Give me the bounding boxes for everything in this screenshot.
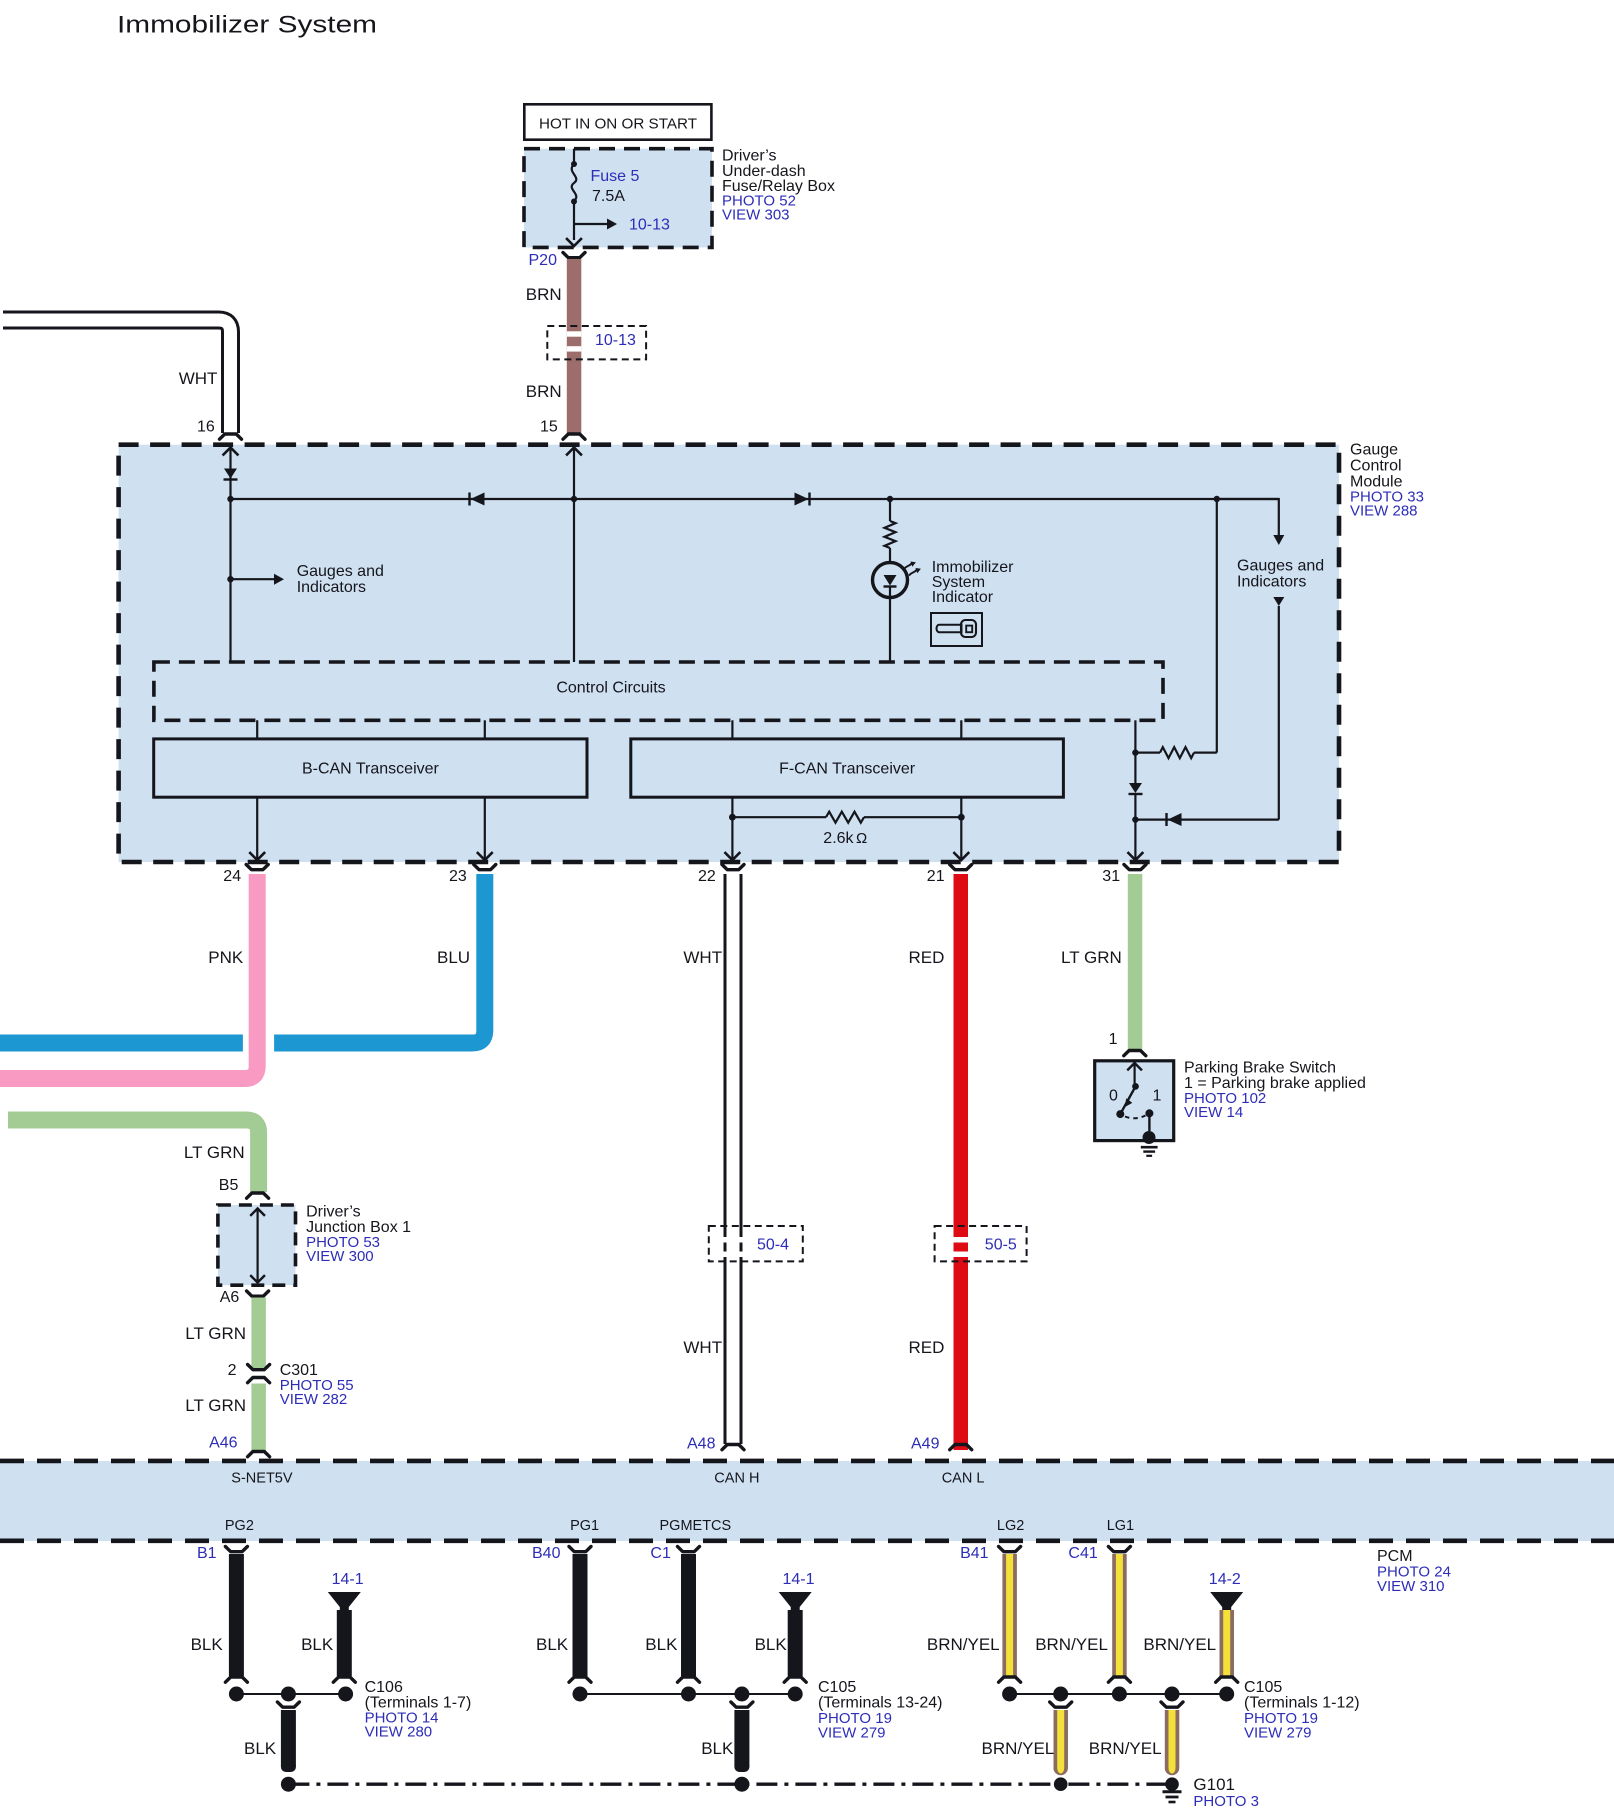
wire BLK (B40 to C105) [573, 1554, 588, 1676]
svg-text:50-5: 50-5 [985, 1237, 1017, 1254]
svg-text:Indicators: Indicators [1237, 574, 1306, 591]
F-CAN transceiver box [731, 720, 733, 739]
F-CAN outputs to pins 22/21 [731, 797, 733, 859]
svg-text:F-CAN Transceiver: F-CAN Transceiver [779, 761, 916, 778]
svg-text:2.6k: 2.6k [823, 830, 854, 847]
C105(13-24) joint line [580, 1693, 795, 1695]
svg-text:Ω: Ω [856, 830, 867, 847]
header box HOT IN ON OR START [524, 104, 711, 139]
svg-text:2: 2 [228, 1362, 237, 1379]
svg-text:23: 23 [449, 868, 467, 885]
svg-text:C106: C106 [365, 1679, 403, 1696]
svg-text:BRN/YEL: BRN/YEL [1089, 1739, 1162, 1758]
svg-text:VIEW 14: VIEW 14 [1184, 1104, 1243, 1121]
svg-text:BRN/YEL: BRN/YEL [927, 1635, 1000, 1654]
resistor R1 (LED series) [885, 521, 896, 548]
svg-text:PGMETCS: PGMETCS [660, 1518, 732, 1534]
svg-text:G101: G101 [1193, 1775, 1235, 1794]
svg-text:RED: RED [909, 948, 945, 967]
C105(1-12) joint line [1010, 1693, 1227, 1695]
wire WHT (from left edge to pin 16) [3, 320, 231, 433]
svg-text:P20: P20 [529, 252, 558, 269]
pin 31 exit arrow [1128, 853, 1142, 860]
svg-text:21: 21 [927, 868, 945, 885]
svg-text:B5: B5 [219, 1177, 239, 1194]
wire WHT (pin 22 to A48) [724, 874, 743, 1444]
switch internals [1128, 1063, 1141, 1070]
svg-text:16: 16 [197, 419, 215, 436]
line to right Gauges and Indicators [1217, 499, 1279, 535]
svg-text:VIEW 279: VIEW 279 [1244, 1725, 1312, 1742]
svg-text:A46: A46 [209, 1435, 238, 1452]
svg-text:BLK: BLK [755, 1635, 788, 1654]
resistor R2 (right feedback) [1135, 751, 1160, 753]
ground G101 [1163, 1790, 1182, 1793]
svg-text:PHOTO 3: PHOTO 3 [1193, 1793, 1259, 1810]
wire BLK (C105 to ground bus) [731, 1702, 753, 1707]
svg-text:BRN: BRN [526, 382, 562, 401]
wire BLK (C1 to C105) [681, 1554, 696, 1676]
svg-text:BLK: BLK [536, 1635, 569, 1654]
svg-text:B41: B41 [960, 1545, 989, 1562]
svg-text:14-1: 14-1 [332, 1571, 364, 1588]
fuse F5 wire [573, 149, 575, 165]
diode D1 (on pin16 branch) [224, 469, 237, 479]
right branch node [1214, 496, 1220, 502]
svg-text:VIEW 280: VIEW 280 [365, 1724, 433, 1741]
wire LT GRN (A6 to C301) [251, 1298, 266, 1370]
wire BLK (14-1b to C105) [788, 1610, 803, 1676]
wire BLK (B1 to C106) [229, 1554, 244, 1676]
svg-text:BRN/YEL: BRN/YEL [1035, 1635, 1108, 1654]
svg-text:(Terminals 13-24): (Terminals 13-24) [818, 1695, 942, 1712]
svg-text:VIEW 300: VIEW 300 [306, 1248, 374, 1265]
svg-text:CAN L: CAN L [942, 1471, 985, 1487]
wire LT GRN (C301 to A46) [251, 1384, 266, 1453]
diode D2 (left-pointing) [471, 493, 485, 506]
svg-text:RED: RED [909, 1338, 945, 1357]
svg-text:LG1: LG1 [1107, 1518, 1134, 1534]
B-CAN transceiver box [256, 720, 258, 739]
svg-text:WHT: WHT [683, 1338, 722, 1357]
svg-text:BRN: BRN [526, 285, 562, 304]
svg-text:BLK: BLK [244, 1739, 277, 1758]
wire BLK (14-1 to C106) [337, 1610, 352, 1676]
B-CAN outputs to pins 24/23 [256, 797, 258, 859]
svg-text:0: 0 [1109, 1088, 1118, 1105]
wire BRN (P20 to pin 15) [567, 259, 582, 433]
branch to 10-13 [574, 223, 608, 225]
svg-text:1: 1 [1109, 1031, 1118, 1048]
svg-text:Gauge: Gauge [1350, 442, 1398, 459]
label Gauges and Indicators (left) [227, 576, 233, 582]
wire BRN/YEL (B41 to C105) [1002, 1554, 1017, 1676]
wire BRN/YEL (14-2 to C105) [1220, 1610, 1235, 1676]
svg-text:C105: C105 [818, 1679, 856, 1696]
svg-text:PG2: PG2 [225, 1518, 254, 1534]
svg-text:S-NET5V: S-NET5V [231, 1471, 293, 1487]
ground at switch [1141, 1146, 1158, 1149]
svg-text:10-13: 10-13 [595, 332, 636, 349]
svg-text:BLK: BLK [645, 1635, 678, 1654]
svg-text:Gauges and: Gauges and [1237, 558, 1324, 575]
svg-text:Immobilizer System: Immobilizer System [117, 12, 377, 39]
terminating resistor 2.6k [729, 814, 736, 821]
wire LT GRN horizontal (left edge to junction box B5) [8, 1120, 259, 1192]
svg-text:CAN H: CAN H [714, 1471, 759, 1487]
wire BRN/YEL (C105 to G101) [1161, 1702, 1183, 1707]
fuse/relay box (Driver's Under-dash Fuse/Relay Box) [524, 149, 712, 248]
gauge control module box [119, 445, 1339, 862]
junction box internal arrow [251, 1209, 264, 1216]
inline connector 50-5 [935, 1226, 1027, 1261]
svg-text:LT GRN: LT GRN [184, 1143, 245, 1162]
LED indicator lamp [873, 563, 908, 598]
svg-text:B40: B40 [532, 1545, 561, 1562]
svg-text:C41: C41 [1068, 1545, 1097, 1562]
fuse 5 element [572, 164, 577, 201]
driver's junction box 1 [218, 1205, 296, 1285]
wire PNK (pin 24 to left edge) [0, 874, 257, 1079]
svg-text:A6: A6 [220, 1289, 240, 1306]
svg-text:WHT: WHT [179, 369, 218, 388]
svg-text:VIEW 282: VIEW 282 [280, 1391, 348, 1408]
svg-text:BLK: BLK [701, 1739, 734, 1758]
LED emission arrows [904, 563, 912, 569]
svg-text:LT GRN: LT GRN [185, 1396, 246, 1415]
svg-text:7.5A: 7.5A [592, 188, 625, 205]
svg-text:Gauges and: Gauges and [297, 563, 384, 580]
svg-text:C1: C1 [650, 1545, 671, 1562]
wire BLK (C106 to ground bus) [277, 1702, 299, 1707]
svg-text:BLK: BLK [191, 1635, 224, 1654]
svg-text:VIEW 303: VIEW 303 [722, 207, 790, 224]
svg-text:C105: C105 [1244, 1679, 1282, 1696]
diode D4 (down) [1134, 753, 1136, 783]
node LED branch [887, 496, 893, 502]
internal bus line y=499 [231, 498, 1279, 500]
svg-text:31: 31 [1102, 868, 1120, 885]
key icon [931, 613, 982, 646]
internal wire from pin 15 [567, 448, 581, 455]
ground bus dash-dot line [288, 1782, 1172, 1785]
inline connector 10-13 [547, 326, 646, 359]
return line from Gauges (right) [1273, 597, 1284, 606]
PCM band [0, 1461, 1614, 1541]
svg-text:BLU: BLU [437, 948, 470, 967]
svg-text:PCM: PCM [1377, 1548, 1413, 1565]
svg-text:HOT IN ON OR START: HOT IN ON OR START [539, 117, 697, 133]
wire BLU (pin 23 to left edge) [274, 874, 485, 1043]
svg-text:Driver’s: Driver’s [306, 1203, 361, 1220]
svg-text:VIEW 310: VIEW 310 [1377, 1578, 1445, 1595]
svg-text:VIEW 288: VIEW 288 [1350, 503, 1418, 520]
svg-text:PG1: PG1 [570, 1518, 599, 1534]
wire BRN/YEL (C105 to ground bus left) [1050, 1702, 1072, 1707]
wire RED (pin 21 to A49) [954, 874, 969, 1450]
svg-text:14-2: 14-2 [1209, 1571, 1241, 1588]
internal wire from pin 16 [224, 448, 238, 455]
svg-text:BRN/YEL: BRN/YEL [982, 1739, 1055, 1758]
fuse box exit arrow [567, 239, 581, 246]
wire BRN/YEL (C41 to C105) [1112, 1554, 1127, 1676]
right-side network: vertical from control box [1134, 720, 1136, 752]
svg-text:Driver’s: Driver’s [722, 148, 777, 165]
svg-text:A48: A48 [687, 1435, 716, 1452]
svg-text:Indicators: Indicators [297, 579, 366, 596]
svg-text:A49: A49 [911, 1435, 940, 1452]
wire LT GRN (pin 31 to parking brake switch) [1128, 874, 1143, 1049]
diode D5 (left-pointing, on return) [1135, 818, 1278, 820]
svg-text:22: 22 [698, 868, 716, 885]
svg-text:BRN/YEL: BRN/YEL [1143, 1635, 1216, 1654]
svg-text:14-1: 14-1 [783, 1571, 815, 1588]
svg-text:B-CAN Transceiver: B-CAN Transceiver [302, 761, 440, 778]
svg-text:1: 1 [1153, 1088, 1162, 1105]
svg-text:B1: B1 [197, 1545, 217, 1562]
svg-text:50-4: 50-4 [757, 1237, 789, 1254]
C106 joint line [236, 1693, 345, 1695]
svg-text:PNK: PNK [208, 948, 244, 967]
svg-text:10-13: 10-13 [629, 217, 670, 234]
svg-text:LT GRN: LT GRN [185, 1324, 246, 1343]
control circuits box [154, 662, 1163, 720]
diode D3 (right-pointing) [795, 493, 809, 506]
svg-text:Control Circuits: Control Circuits [556, 680, 665, 697]
svg-text:WHT: WHT [683, 948, 722, 967]
svg-text:VIEW 279: VIEW 279 [818, 1725, 886, 1742]
svg-text:24: 24 [223, 868, 241, 885]
svg-text:15: 15 [540, 419, 558, 436]
svg-text:Control: Control [1350, 458, 1402, 475]
svg-text:LT GRN: LT GRN [1061, 948, 1122, 967]
svg-text:Indicator: Indicator [932, 589, 994, 606]
svg-text:LG2: LG2 [997, 1518, 1024, 1534]
inline connector 50-4 [709, 1226, 803, 1261]
svg-text:(Terminals 1-12): (Terminals 1-12) [1244, 1695, 1360, 1712]
svg-text:BLK: BLK [301, 1635, 334, 1654]
svg-text:Fuse 5: Fuse 5 [591, 168, 640, 185]
svg-text:Parking Brake Switch: Parking Brake Switch [1184, 1060, 1336, 1077]
parking brake switch box [1095, 1061, 1174, 1141]
